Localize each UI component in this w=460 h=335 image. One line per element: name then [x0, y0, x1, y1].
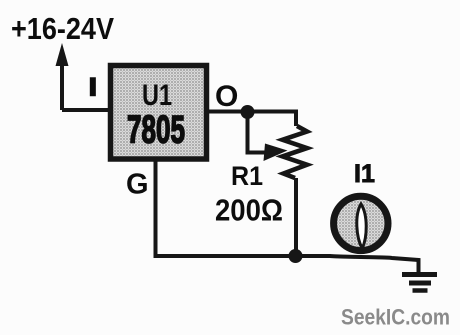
regulator U1 body [111, 66, 207, 160]
power arrow [56, 43, 69, 110]
ground [402, 275, 437, 291]
wire input [62, 108, 108, 112]
svg-text:I1: I1 [354, 160, 375, 188]
node junction at O [241, 105, 255, 119]
svg-text:7805: 7805 [127, 109, 185, 152]
svg-text:U1: U1 [142, 79, 172, 112]
wire R1 bottom [294, 178, 298, 256]
node junction bottom [289, 249, 303, 263]
wire output [208, 112, 296, 127]
svg-text:+16-24V: +16-24V [11, 12, 115, 46]
svg-text:SeekIC.com: SeekIC.com [341, 305, 450, 330]
svg-text:R1: R1 [231, 161, 263, 191]
lamp I1 [334, 196, 388, 250]
wiper wire of R1 [248, 117, 288, 161]
svg-text:O: O [215, 80, 238, 113]
wire ground pin of U1 [154, 159, 158, 256]
rheostat R1 zigzag [283, 126, 308, 178]
svg-text:I: I [90, 74, 97, 101]
svg-text:200Ω: 200Ω [215, 193, 283, 228]
wire bottom rail [154, 256, 419, 273]
svg-text:G: G [126, 169, 149, 201]
